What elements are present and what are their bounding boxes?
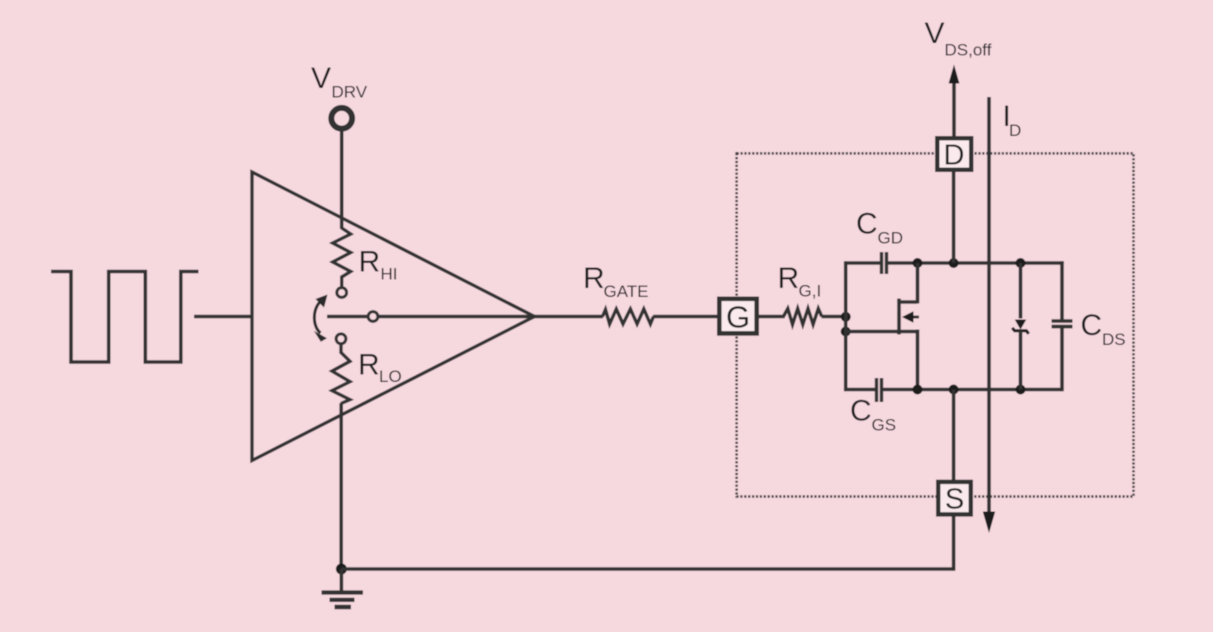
resistor RGI: [781, 309, 822, 325]
svg-text:D: D: [1009, 121, 1021, 140]
input square wave: [51, 272, 199, 363]
wire S box to ground rail: [952, 514, 956, 571]
wire G box to RGI: [759, 315, 781, 319]
svg-text:DRV: DRV: [332, 83, 368, 102]
dashed MOSFET package box: [737, 153, 1134, 496]
svg-text:DS: DS: [1102, 330, 1126, 349]
svg-text:DS,off: DS,off: [945, 41, 992, 60]
resistor RHI: [333, 228, 351, 287]
mosfet source wire: [916, 330, 920, 390]
bottom wire left of CGS: [844, 388, 877, 392]
body diode wire upper: [1019, 263, 1023, 319]
node dot drain-diode: [1016, 258, 1026, 268]
svg-text:G: G: [726, 300, 750, 335]
mosfet drain wire: [916, 263, 920, 304]
capacitor CDS: [1052, 319, 1073, 323]
svg-text:R: R: [778, 262, 800, 295]
ground junction dot: [336, 564, 347, 575]
wire D box to top rail: [952, 170, 956, 263]
S box: [938, 482, 971, 515]
wire apex to RGATE: [535, 315, 604, 319]
resistor RLO: [332, 344, 350, 403]
wire RLO to ground rail: [339, 403, 343, 570]
pole node circle: [368, 312, 378, 322]
mosfet gate/source wire: [846, 330, 918, 334]
bottom ground wire: [341, 567, 953, 571]
wire VDRV to RHI: [340, 131, 344, 230]
ground symbol: [340, 569, 344, 591]
svg-text:GS: GS: [872, 416, 897, 435]
wire RGATE to G box: [653, 315, 722, 319]
svg-text:R: R: [359, 246, 381, 279]
op-amp driver triangle: [252, 172, 535, 461]
body diode wire lower: [1019, 331, 1023, 390]
mosfet drain jog: [899, 300, 918, 303]
svg-text:G,I: G,I: [799, 282, 822, 301]
svg-text:V: V: [925, 17, 945, 50]
D box: [937, 138, 971, 170]
mosfet gate bar: [897, 299, 901, 335]
node dot source-S: [949, 385, 959, 395]
top wire right of CGD: [887, 261, 1063, 265]
wire input to driver: [194, 315, 252, 319]
svg-text:C: C: [850, 395, 872, 428]
CDS branch wire lower: [1060, 327, 1064, 392]
bottom wire right of CGS: [882, 388, 1063, 392]
capacitor CGS: [875, 378, 878, 402]
mosfet body arrow: [911, 316, 919, 319]
RHI terminal circle: [337, 288, 347, 298]
top wire left of CGD: [844, 261, 882, 265]
svg-text:LO: LO: [379, 367, 402, 386]
node dot gate lower: [841, 327, 851, 337]
capacitor CGD: [880, 252, 883, 274]
svg-text:V: V: [311, 62, 331, 95]
node dot source-diode: [1016, 385, 1026, 395]
ID current line: [987, 97, 991, 513]
left vertical wire: [844, 261, 848, 391]
svg-text:GATE: GATE: [604, 282, 649, 301]
V_DRV terminal circle: [331, 108, 352, 129]
G box: [719, 299, 756, 334]
svg-text:C: C: [856, 208, 878, 241]
svg-text:GD: GD: [878, 229, 904, 248]
body diode symbol: [1015, 320, 1027, 330]
ID arrowhead: [983, 512, 995, 534]
svg-text:R: R: [583, 262, 605, 295]
svg-text:HI: HI: [381, 265, 398, 284]
node dot source-mosfet: [913, 385, 923, 395]
node dot drain-D: [949, 258, 959, 268]
switch arrow arc: [314, 300, 322, 333]
node dot gate upper: [841, 312, 851, 322]
wire RGI to gate node: [822, 315, 846, 319]
svg-text:S: S: [945, 484, 964, 516]
svg-text:D: D: [944, 140, 965, 172]
VDSoff arrow: [952, 80, 956, 137]
pole wire to apex: [327, 315, 535, 319]
svg-text:R: R: [358, 349, 380, 382]
svg-text:C: C: [1081, 309, 1103, 342]
node dot drain-mosfet: [913, 258, 923, 268]
resistor RGATE: [603, 309, 654, 324]
wire top rail to S box: [952, 390, 956, 484]
CDS branch wire upper: [1062, 261, 1064, 265]
RLO terminal circle: [336, 334, 346, 344]
